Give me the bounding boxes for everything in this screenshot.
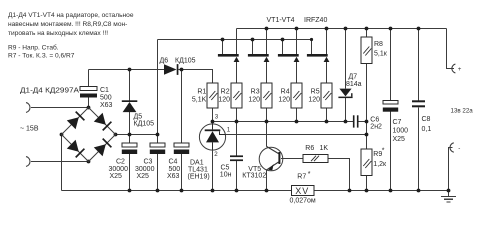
wire: C4 bottom to rail bbox=[181, 154, 183, 191]
node: feedback / R9 junction bbox=[365, 133, 369, 137]
svg-text:Д1-Д4 КД2997А: Д1-Д4 КД2997А bbox=[20, 87, 79, 94]
node: VT5 emitter on rail bbox=[265, 189, 269, 193]
value label R1 bbox=[192, 89, 207, 104]
node: D7 on bus bbox=[344, 27, 348, 31]
wire: R3 bottom to gate bus bbox=[266, 108, 268, 122]
value label R8 bbox=[374, 41, 388, 58]
svg-text:120: 120 bbox=[218, 97, 230, 104]
wire: bridge diamond sides bbox=[62, 108, 116, 162]
node: R8 on bus bbox=[365, 27, 369, 31]
svg-text:(ЕН19): (ЕН19) bbox=[188, 173, 210, 180]
svg-text:тировать на выходных клемах !!: тировать на выходных клемах !!! bbox=[8, 30, 108, 37]
node: R4 gate bus junction bbox=[295, 120, 299, 124]
zener D7 bbox=[338, 89, 352, 99]
capacitor C2 bbox=[122, 143, 137, 154]
diode D6 bbox=[164, 64, 178, 75]
annotation note top-left bbox=[8, 12, 134, 59]
resistor R1 bbox=[207, 83, 218, 108]
node: R6 branch on rail bbox=[348, 189, 352, 193]
node: C3 on rail bbox=[156, 189, 160, 193]
svg-text:1: 1 bbox=[227, 127, 231, 134]
wire: C6 right plate to feedback node bbox=[358, 121, 366, 123]
svg-text:10н: 10н bbox=[220, 172, 232, 179]
svg-text:500: 500 bbox=[169, 166, 181, 173]
wire: VT2 gate to R3 bbox=[266, 62, 268, 84]
node: R2/C5 gate bus junction bbox=[235, 120, 239, 124]
wire: VT5 collector diagonal bbox=[267, 146, 279, 153]
svg-text:+: + bbox=[458, 66, 462, 73]
node: C7 on rail bbox=[389, 189, 393, 193]
wire: C1 top to pump wire bbox=[88, 70, 90, 87]
wire: VT1 drain drop bbox=[222, 40, 224, 55]
svg-text:Д7: Д7 bbox=[349, 74, 358, 81]
node: DA1 anode on rail bbox=[211, 189, 215, 193]
resistor R3 bbox=[261, 83, 272, 108]
svg-text:-: - bbox=[458, 145, 460, 152]
node: C8 on rail bbox=[417, 189, 421, 193]
node: R8/C6 junction bbox=[365, 120, 369, 124]
value label D6 bbox=[160, 57, 196, 64]
svg-text:1000: 1000 bbox=[393, 127, 409, 134]
value label R6 bbox=[305, 145, 328, 152]
svg-text:Х63: Х63 bbox=[100, 102, 113, 109]
wire: raw plus riser to drain rail bbox=[157, 40, 159, 135]
transistor VT2 bbox=[248, 54, 270, 62]
wire: C2 bottom to rail bbox=[129, 154, 131, 191]
svg-text:ХV: ХV bbox=[295, 186, 309, 196]
wire: AC input top to bridge N corner bbox=[31, 107, 89, 109]
svg-text:120: 120 bbox=[278, 97, 290, 104]
capacitor C6 bbox=[353, 115, 359, 127]
node: VT3 source on bus bbox=[295, 27, 299, 31]
wire: C3 top stub bbox=[157, 135, 159, 144]
diode D3 bridge W to S bbox=[67, 140, 85, 158]
svg-text:R7: R7 bbox=[297, 174, 306, 181]
value label R7 bbox=[290, 171, 316, 204]
node: VT2 drain on rail bbox=[251, 38, 255, 42]
wire: pump wire C1 corner to D6 anode bbox=[89, 69, 165, 71]
value label C1 bbox=[100, 87, 113, 109]
svg-text:C4: C4 bbox=[169, 159, 178, 166]
node: R1/DA1 gate bus junction bbox=[211, 120, 215, 124]
transistor VT4 bbox=[307, 54, 330, 62]
wire: VT2 source to output bus bbox=[266, 29, 268, 55]
svg-text:3: 3 bbox=[215, 113, 219, 120]
value label D7 bbox=[346, 74, 362, 88]
svg-text:120: 120 bbox=[248, 97, 260, 104]
wire: VT4 source to output bus bbox=[326, 29, 328, 55]
svg-text:R7 - Ток. К.З. = 0,6/R7: R7 - Ток. К.З. = 0,6/R7 bbox=[8, 52, 75, 59]
wire: D5 cathode to pump wire bbox=[129, 70, 131, 101]
wire: VT1 gate to R2 bbox=[236, 62, 238, 84]
terminal: AC input top bbox=[26, 103, 30, 113]
node: C5 on rail bbox=[235, 189, 239, 193]
terminal: AC input bottom bbox=[26, 157, 30, 167]
capacitor C4 bbox=[174, 143, 189, 154]
value label C3 bbox=[135, 159, 155, 181]
diode D4 bridge S to E bbox=[94, 138, 112, 156]
value label C6 bbox=[370, 116, 382, 130]
svg-text:КД105: КД105 bbox=[134, 121, 155, 128]
capacitor C1 bbox=[80, 87, 97, 98]
wire: C5 bottom to rail bbox=[236, 161, 238, 190]
svg-text:2: 2 bbox=[214, 151, 218, 158]
wire: D7 top to output bus bbox=[345, 29, 347, 89]
svg-text:C1: C1 bbox=[100, 87, 109, 94]
diode D1 bridge W to N bbox=[67, 111, 85, 129]
wire: bottom negative rail right of R7 shunt bbox=[314, 190, 449, 192]
svg-text:IRFZ40: IRFZ40 bbox=[304, 17, 327, 24]
wire: R9 bottom to rail bbox=[366, 176, 368, 191]
resistor R6 bbox=[303, 154, 328, 162]
wire: output plus bus bbox=[237, 28, 447, 30]
svg-text:R1: R1 bbox=[197, 89, 206, 96]
wire: C7 bottom to rail bbox=[390, 112, 392, 191]
node: D7 gate bus junction bbox=[344, 120, 348, 124]
wire: C3 bottom to rail bbox=[157, 154, 159, 191]
node: R3/VT5 gate bus junction bbox=[265, 120, 269, 124]
value label R9 bbox=[373, 148, 387, 169]
svg-text:C8: C8 bbox=[422, 116, 431, 123]
svg-text:R4: R4 bbox=[281, 89, 290, 96]
node: C4 on rail bbox=[180, 189, 184, 193]
wire: drain rail bbox=[158, 39, 312, 41]
diode D5 bbox=[122, 100, 138, 112]
wire: D5 anode to bridge plus node bbox=[129, 112, 131, 134]
wire: VT5 emitter drop to rail bbox=[266, 170, 268, 191]
value label R3 bbox=[248, 89, 260, 104]
wire: DA1 anode pin 2 to rail bbox=[212, 150, 214, 191]
wire: pump wire D6 cathode to R1 top corner bbox=[178, 70, 212, 84]
wire: DA1 ref pin 1 feedback line to R8/R9 node bbox=[226, 134, 367, 136]
node: C3 / riser junction bbox=[156, 133, 160, 137]
svg-text:C3: C3 bbox=[144, 159, 153, 166]
resistor R4 bbox=[291, 83, 302, 108]
svg-text:КТ3102: КТ3102 bbox=[242, 173, 266, 180]
transistor VT3 bbox=[278, 54, 300, 62]
svg-text:*: * bbox=[308, 171, 311, 178]
node: D5 tap on pump wire bbox=[128, 68, 132, 72]
capacitor C7 bbox=[383, 101, 398, 112]
wire: VT2 drain drop bbox=[252, 40, 254, 55]
svg-text:R9 - Напр. Стаб.: R9 - Напр. Стаб. bbox=[8, 43, 59, 51]
wire: VT1 source to output bus bbox=[236, 29, 238, 55]
value label DA1 bbox=[188, 160, 210, 181]
svg-text:*: * bbox=[382, 148, 385, 155]
svg-text:Х25: Х25 bbox=[393, 136, 406, 143]
value label R5 bbox=[308, 89, 320, 104]
wire: minus output terminal riser bbox=[449, 148, 453, 191]
wire: VT5 collector riser to gate bus bbox=[266, 122, 268, 147]
node: bridge W corner bbox=[60, 133, 64, 137]
wire: C8 top to output bus bbox=[418, 29, 420, 101]
wire: gate bus bbox=[213, 121, 353, 123]
wire: VT5 base to R6 bbox=[281, 158, 303, 160]
wire: bridge plus E corner to filter caps bbox=[116, 134, 158, 136]
value label C5 bbox=[220, 165, 232, 179]
wire: bridge minus W corner down to bottom rail bbox=[61, 135, 63, 191]
node: C7 on bus bbox=[389, 27, 393, 31]
node: VT1 drain on rail bbox=[221, 38, 225, 42]
transistor Q2: VT5 KT3102 bbox=[259, 147, 283, 171]
svg-text:5,1к: 5,1к bbox=[374, 51, 388, 58]
wire: VT3 source to output bus bbox=[296, 29, 298, 55]
svg-text:30000: 30000 bbox=[109, 166, 129, 173]
wire: ground stub bbox=[448, 191, 450, 197]
value label R4 bbox=[278, 89, 290, 104]
svg-text:814а: 814а bbox=[346, 81, 362, 88]
svg-text:2н2: 2н2 bbox=[370, 123, 382, 130]
capacitor C3 bbox=[150, 143, 165, 154]
wire: VT4 gate to R5 bbox=[326, 62, 328, 84]
wire: C8 bottom to rail bbox=[418, 107, 420, 190]
wire: R5 bottom to gate bus bbox=[326, 108, 328, 122]
node: rail end corner bbox=[310, 38, 313, 41]
node: VT3 drain on rail bbox=[281, 38, 285, 42]
svg-text:~ 15В: ~ 15В bbox=[20, 126, 39, 133]
value label C8 bbox=[422, 116, 432, 133]
svg-text:R2: R2 bbox=[221, 89, 230, 96]
node: VT2 source on bus bbox=[265, 27, 269, 31]
node: bridge S corner bbox=[87, 160, 91, 164]
value label C7 bbox=[393, 119, 409, 143]
svg-text:5,1K: 5,1K bbox=[192, 97, 207, 104]
wire: R4 bottom to gate bus bbox=[296, 108, 298, 122]
wire: C5 top to gate bus bbox=[236, 122, 238, 156]
svg-text:Д5: Д5 bbox=[134, 114, 143, 121]
value label R2 bbox=[218, 89, 230, 104]
wire: VT3 gate to R4 bbox=[296, 62, 298, 84]
wire: R6 right corner down to rail bbox=[328, 159, 350, 191]
wire: C2 top stub bbox=[129, 135, 131, 144]
svg-text:0,1: 0,1 bbox=[422, 126, 432, 133]
svg-text:120: 120 bbox=[308, 97, 320, 104]
svg-text:навесным монтажем. !!! R8,R9,C: навесным монтажем. !!! R8,R9,C8 мон- bbox=[8, 21, 127, 28]
capacitor C5 bbox=[230, 155, 243, 161]
svg-text:Х63: Х63 bbox=[167, 173, 180, 180]
svg-text:13в 22а: 13в 22а bbox=[451, 107, 474, 114]
wire: R2 bottom to gate bus bbox=[236, 108, 238, 122]
node: C2 junction on plus node bbox=[128, 133, 132, 137]
node: D6 cathode / C4 junction bbox=[180, 68, 184, 72]
wire: R8 top to output bus bbox=[366, 29, 368, 38]
svg-text:Д1-Д4 VT1-VT4 на радиаторе, ос: Д1-Д4 VT1-VT4 на радиаторе, остальное bbox=[8, 12, 134, 19]
svg-text:500: 500 bbox=[100, 95, 112, 102]
label VT1-VT4 IRFZ40 bbox=[267, 17, 328, 24]
svg-text:Х25: Х25 bbox=[110, 173, 123, 180]
wire: C7 top to output bus bbox=[390, 29, 392, 101]
terminal: output plus bbox=[452, 64, 462, 73]
svg-text:C6: C6 bbox=[370, 116, 379, 123]
ground bbox=[441, 197, 456, 202]
wire: C1 bottom to bridge N node bbox=[88, 98, 90, 108]
svg-text:30000: 30000 bbox=[135, 166, 155, 173]
node: bridge E corner bbox=[114, 133, 118, 137]
wire: VT3 drain drop bbox=[282, 40, 284, 55]
op-amp U1: DA1 TL431 shunt regulator bbox=[199, 124, 225, 150]
terminal: output minus bbox=[450, 143, 460, 152]
wire: VT5 emitter diagonal bbox=[267, 162, 279, 170]
svg-text:R3: R3 bbox=[251, 89, 260, 96]
diode D2 bridge N to E bbox=[94, 113, 112, 131]
svg-text:VT1-VT4: VT1-VT4 bbox=[267, 17, 295, 24]
svg-text:Х25: Х25 bbox=[137, 173, 150, 180]
wire: DA1 cathode stub pin 3 bbox=[212, 122, 214, 125]
resistor R7 shunt bbox=[292, 186, 315, 197]
wire: AC input bottom to bridge S corner bbox=[31, 161, 89, 163]
svg-text:1,2к: 1,2к bbox=[373, 161, 387, 168]
value label VT5 bbox=[242, 166, 266, 180]
resistor R5 bbox=[321, 83, 332, 108]
svg-text:Д6: Д6 bbox=[160, 57, 169, 64]
value label C4 bbox=[167, 159, 180, 181]
resistor R2 bbox=[231, 83, 242, 108]
node: ground / minus terminal on rail bbox=[447, 189, 451, 193]
svg-text:КД105: КД105 bbox=[175, 57, 196, 64]
node: R9 on rail bbox=[365, 189, 369, 193]
resistor R9 bbox=[361, 149, 372, 176]
node: R5 gate bus junction bbox=[325, 120, 329, 124]
node: C8 on bus bbox=[417, 27, 421, 31]
transistor VT1 bbox=[218, 54, 240, 62]
svg-text:C7: C7 bbox=[393, 119, 402, 126]
node: VT4 source on bus bbox=[325, 27, 329, 31]
wire: R1 bottom to gate bus bbox=[212, 108, 214, 122]
svg-text:R6: R6 bbox=[305, 145, 314, 152]
svg-text:C2: C2 bbox=[116, 159, 125, 166]
node: bridge N corner bbox=[87, 106, 91, 110]
wire: bottom negative rail left of R7 shunt bbox=[62, 190, 292, 192]
svg-text:0,027ом: 0,027ом bbox=[290, 197, 316, 204]
svg-text:R8: R8 bbox=[374, 41, 383, 48]
wire: D7 bottom to gate bus bbox=[345, 98, 347, 121]
resistor R8 bbox=[361, 37, 372, 64]
value label C2 bbox=[109, 159, 129, 181]
wire: VT4 drain drop bbox=[311, 40, 313, 55]
node: C2 on rail bbox=[128, 189, 132, 193]
capacitor C8 bbox=[412, 100, 425, 107]
svg-text:1K: 1K bbox=[320, 145, 329, 152]
wire: C4 top to pump node bbox=[181, 70, 183, 144]
svg-text:R5: R5 bbox=[311, 89, 320, 96]
value label D5 bbox=[134, 114, 155, 128]
wire: R8 bottom through C6/feedback node to R9 top bbox=[366, 64, 368, 149]
wire: output bus to plus terminal bbox=[447, 29, 455, 69]
